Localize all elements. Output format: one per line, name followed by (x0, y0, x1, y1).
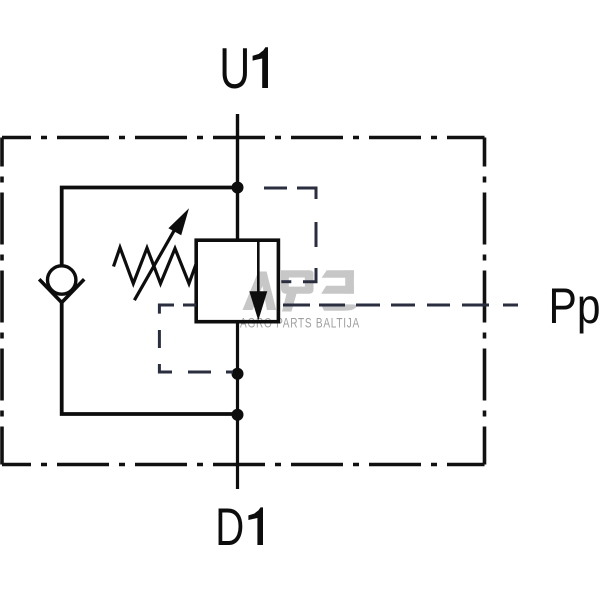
relief valve RV1 internal flow arrow (249, 291, 267, 320)
enclosure border top (dash-dot) (2, 136, 485, 140)
enclosure border left (dash-dot) (0, 138, 4, 465)
pilot line upper (dashed) (264, 188, 316, 282)
pilot line Pp (dashed) (283, 304, 518, 307)
junction node at upper tee (232, 182, 244, 194)
relief valve RV1 adjustment arrow head (168, 208, 189, 235)
enclosure border bottom (dash-dot) (2, 463, 485, 467)
check valve CV1 seat (39, 279, 84, 302)
relief valve RV1 adjustment arrow shaft (134, 225, 177, 301)
svg-text:U: U (219, 37, 250, 101)
junction node at lower pilot tee (232, 368, 244, 380)
enclosure border right (dash-dot) (483, 138, 487, 465)
relief valve RV1 spring (114, 248, 197, 284)
check valve CV1 circle (48, 266, 76, 294)
watermark logo letter 3 (mirrored B) (321, 270, 357, 310)
main line valve to D1 (236, 322, 239, 489)
watermark logo letter A (243, 272, 277, 311)
pilot line left lower (dashed) (159, 305, 233, 372)
port label D1 digit 1 (248, 507, 263, 545)
watermark logo letter P (281, 270, 314, 311)
wire check valve bottom branch (62, 302, 238, 414)
svg-text:D: D (215, 498, 244, 557)
port label U1 digit 1 (253, 47, 268, 88)
svg-text:Pp: Pp (549, 278, 600, 334)
relief valve RV1 internal poppet line (257, 240, 260, 292)
wire check valve top branch (62, 188, 238, 265)
junction node at check valve tee (232, 409, 244, 421)
main line U1 to valve (236, 114, 239, 240)
relief valve RV1 body box (196, 240, 278, 322)
